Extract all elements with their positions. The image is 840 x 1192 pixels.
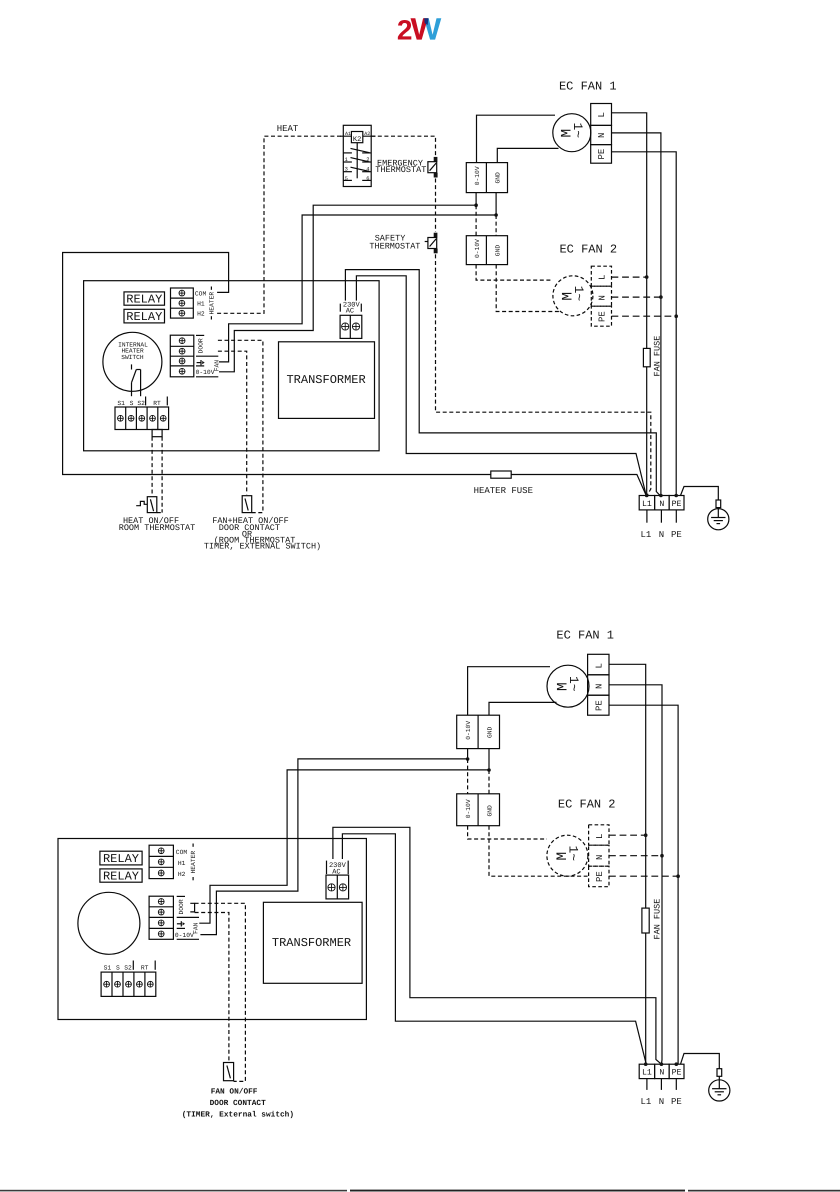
svg-text:AC: AC (346, 308, 354, 316)
svg-text:H1: H1 (197, 300, 205, 307)
logo V blue (424, 18, 441, 39)
svg-text:1~: 1~ (566, 846, 581, 862)
wire PE supply (612, 152, 677, 496)
terminal block L1 N PE mains (639, 496, 684, 540)
svg-text:HEATER FUSE: HEATER FUSE (474, 486, 533, 496)
svg-text:FAN FUSE: FAN FUSE (653, 336, 663, 377)
terminal block fan1 PE (591, 145, 612, 164)
svg-text:L1: L1 (640, 530, 651, 540)
svg-text:RT: RT (153, 400, 161, 407)
svg-text:S1: S1 (104, 964, 112, 971)
enclosure box (bottom) (58, 839, 366, 1020)
motor M1 (EC FAN 1) (553, 114, 591, 152)
svg-text:GND: GND (494, 245, 501, 257)
connector X2 fan2 0-10V/GND (bottom) (457, 794, 500, 826)
terminal block fan1 L (bottom) (588, 654, 609, 675)
connector X2 fan2 0-10V/GND (466, 236, 507, 265)
svg-text:THERMOSTAT: THERMOSTAT (375, 165, 426, 175)
svg-text:S: S (116, 964, 120, 971)
node junction fan2 PE (bottom) (676, 874, 680, 878)
node junction PE (674, 494, 678, 498)
svg-text:H2: H2 (197, 311, 205, 318)
svg-text:EC FAN 2: EC FAN 2 (558, 798, 616, 812)
ground earth symbol (bottom) (709, 1080, 730, 1101)
svg-text:N: N (659, 530, 664, 540)
svg-text:0-10V: 0-10V (474, 166, 481, 185)
svg-text:PE: PE (595, 871, 605, 882)
svg-text:FAN: FAN (213, 360, 220, 372)
wire dashed fan2 GND to motor2 (bottom) (489, 826, 588, 877)
wire fan1 GND to motor (497, 148, 558, 162)
switch circle (bottom, empty) (78, 892, 140, 954)
svg-text:SWITCH: SWITCH (121, 354, 144, 361)
svg-text:TRANSFORMER: TRANSFORMER (286, 373, 365, 387)
wire 230V L to N terminal (bottom) (333, 827, 662, 1064)
relay K relay1 (bottom) (100, 851, 142, 866)
relay K relay1 (124, 292, 165, 307)
switch room thermostat symbol (136, 497, 162, 513)
svg-text:L1: L1 (642, 500, 652, 509)
svg-text:RT: RT (141, 964, 149, 971)
ground earth symbol (708, 509, 729, 530)
motor M2 (EC FAN 2) dashed (bottom) (547, 835, 588, 876)
svg-text:FAN: FAN (193, 922, 200, 934)
svg-text:DOOR: DOOR (178, 899, 185, 914)
relay K relay2 (124, 309, 165, 324)
wire COM to L1 via heater fuse (63, 253, 491, 475)
svg-text:N: N (595, 684, 605, 689)
svg-text:S1: S1 (117, 400, 125, 407)
node junction fan2 N (bottom) (660, 854, 664, 858)
wire dashed fan2 GND to motor2 (496, 265, 561, 312)
node junction L1 (bottom) (644, 1062, 648, 1066)
svg-text:EC FAN 2: EC FAN 2 (559, 242, 617, 256)
svg-text:RELAY: RELAY (103, 852, 139, 866)
node junction 0-10V (bottom) (466, 757, 470, 761)
enclosure inner box (component plate) (84, 281, 380, 451)
wire dashed DOOR row1 (218, 340, 263, 513)
wire dashed 0-10V to fan2 (475, 205, 477, 236)
terminal block fan2 PE dashed (bottom) (589, 866, 609, 887)
wire dashed GND to fan2 (bottom) (488, 770, 490, 794)
terminal block FAN (bottom) (149, 896, 200, 939)
svg-text:H2: H2 (178, 871, 186, 878)
terminal block 230V AC (340, 301, 362, 338)
svg-text:PE: PE (595, 700, 605, 711)
svg-text:PE: PE (598, 311, 608, 322)
wire PE to earth (681, 487, 719, 501)
wire 0-10V control (bottom) (200, 759, 467, 935)
node junction fan2 L (bottom) (644, 833, 648, 837)
wire GND control (bottom) (199, 770, 489, 923)
svg-text:0-10V: 0-10V (196, 369, 215, 376)
transformer T1 (bottom) (263, 902, 362, 983)
svg-text:HEATER: HEATER (190, 851, 197, 874)
fuse F1 HEATER FUSE (474, 471, 533, 496)
svg-text:RELAY: RELAY (103, 870, 139, 884)
terminal block HEATER (COM H1 H2) (171, 287, 216, 320)
svg-text:N: N (659, 1097, 664, 1107)
logo overlap navy (424, 18, 428, 25)
wire PE supply (bottom) (609, 705, 678, 1064)
svg-text:TRANSFORMER: TRANSFORMER (272, 936, 351, 950)
svg-text:S: S (130, 400, 134, 407)
node junction 0-10V (474, 203, 478, 207)
terminal block fan1 N (591, 125, 612, 144)
emergency thermostat B1 (375, 157, 437, 178)
svg-text:0-10V: 0-10V (465, 799, 472, 818)
svg-text:N: N (597, 133, 607, 138)
svg-text:1: 1 (345, 157, 348, 163)
svg-text:6: 6 (366, 176, 369, 182)
wire K2 A2 to emergency thermostat (dashed) (371, 136, 435, 156)
wire safety thermostat to L1 (dashed) (436, 254, 651, 495)
svg-text:L: L (598, 275, 608, 280)
footer bar (0, 1190, 840, 1192)
terminal block fan2 PE dashed (591, 306, 611, 326)
svg-text:TIMER, EXTERNAL SWITCH): TIMER, EXTERNAL SWITCH) (204, 542, 321, 552)
node junction GND (bottom) (487, 768, 491, 772)
wire 0-10V control (fan speed) (219, 205, 476, 372)
svg-text:THERMOSTAT: THERMOSTAT (369, 242, 420, 252)
fuse F2 FAN FUSE (643, 336, 662, 377)
svg-text:GND: GND (487, 726, 494, 738)
wire dashed DOOR upper (bottom) (195, 903, 246, 1081)
wire L supply (bottom) (609, 664, 646, 1064)
svg-text:(TIMER, External switch): (TIMER, External switch) (182, 1111, 294, 1120)
wire dashed 0-10V to fan2 (bottom) (467, 759, 469, 794)
wire dashed RT left (151, 437, 153, 495)
svg-text:1~: 1~ (566, 676, 581, 692)
svg-text:RELAY: RELAY (126, 293, 162, 307)
wire PE to earth (bottom) (681, 1054, 720, 1069)
node junction N (bottom) (660, 1062, 664, 1066)
svg-text:H1: H1 (178, 860, 186, 867)
svg-text:S2: S2 (124, 964, 132, 971)
svg-text:GND: GND (494, 172, 501, 184)
wire emergency to safety thermostat (dashed) (435, 179, 437, 232)
svg-text:EC FAN 1: EC FAN 1 (556, 629, 614, 643)
wire GND control (219, 215, 496, 362)
contactor K2 (340, 125, 376, 186)
wire dashed fan2 0-10V to motor2 (476, 265, 552, 281)
node junction L1 (645, 494, 649, 498)
svg-text:HEAT: HEAT (277, 124, 299, 134)
svg-text:2: 2 (397, 15, 413, 46)
transformer T1 (279, 342, 375, 419)
svg-text:RELAY: RELAY (126, 310, 162, 324)
svg-text:EC FAN 1: EC FAN 1 (559, 80, 617, 94)
svg-text:1~: 1~ (571, 286, 586, 302)
svg-text:4: 4 (366, 167, 369, 173)
svg-text:PE: PE (671, 1097, 682, 1107)
motor M1 bottom (547, 665, 589, 707)
terminal strip S1 S S2 RT (115, 397, 169, 437)
switch door contact symbol (242, 496, 263, 513)
fuse F2 FAN FUSE (bottom) (642, 899, 663, 940)
wire N supply (bottom) (609, 685, 662, 1064)
terminal block fan1 L (591, 104, 612, 126)
svg-text:PE: PE (597, 149, 607, 160)
svg-text:DOOR CONTACT: DOOR CONTACT (210, 1099, 266, 1108)
terminal block fan2 L dashed (591, 266, 611, 286)
svg-text:HEATER: HEATER (208, 292, 215, 315)
wire dashed fan2 N (bottom) (609, 855, 662, 857)
2VV logo (397, 15, 441, 46)
motor M2 (EC FAN 2) dashed (553, 276, 593, 316)
svg-text:L: L (595, 834, 605, 839)
relay K relay2 (bottom) (100, 869, 142, 884)
svg-text:0-10V: 0-10V (175, 932, 194, 939)
terminal strip S1 S S2 RT (bottom) (101, 961, 156, 997)
svg-text:PE: PE (672, 500, 682, 509)
node junction GND (494, 213, 498, 217)
wire dashed fan2 L (bottom) (609, 834, 646, 836)
node junction fan2 L (645, 275, 649, 279)
terminal block fan2 N dashed (591, 286, 611, 306)
svg-text:L1: L1 (640, 1097, 651, 1107)
terminal block fan2 N dashed (bottom) (589, 845, 609, 866)
svg-text:0-10V: 0-10V (465, 721, 472, 740)
svg-text:L: L (595, 663, 605, 668)
svg-text:2: 2 (366, 157, 369, 163)
wire L supply (612, 113, 647, 496)
node junction PE (bottom) (675, 1062, 679, 1066)
wire dashed fan2 N (612, 296, 661, 298)
fuse earth link (716, 500, 721, 508)
wire fan1 0-10V to motor (bottom) (468, 667, 550, 716)
svg-text:L1: L1 (642, 1068, 652, 1077)
svg-text:COM: COM (176, 849, 188, 856)
svg-text:DOOR: DOOR (197, 338, 204, 353)
wire dashed DOOR lower (bottom) (195, 913, 229, 1063)
svg-text:PE: PE (671, 530, 682, 540)
wire fan1 GND to motor (bottom) (489, 702, 557, 715)
wire dashed RT right (161, 437, 163, 513)
wire dashed fan2 0-10V to motor2 (bottom) (468, 826, 547, 839)
bracket DOOR rows (bottom) (190, 903, 194, 912)
terminal block HEATER (bottom) (149, 844, 197, 881)
wire 230V N to L1 terminal (356, 276, 645, 494)
svg-text:N: N (598, 295, 608, 300)
terminal block L1 N PE mains (bottom) (639, 1064, 684, 1107)
wire dashed GND to fan2 (495, 215, 497, 236)
node junction fan2 N (659, 295, 663, 299)
svg-text:FAN ON/OFF: FAN ON/OFF (211, 1087, 258, 1096)
wire 230V N to L1 terminal (bottom) (342, 834, 645, 1063)
svg-text:L: L (597, 112, 607, 117)
svg-text:N: N (595, 855, 605, 860)
svg-text:PE: PE (672, 1068, 682, 1077)
fuse earth link (bottom) (717, 1069, 722, 1077)
node junction fan2 PE (674, 314, 678, 318)
wire dashed DOOR row2 (218, 351, 247, 494)
svg-text:FAN FUSE: FAN FUSE (653, 899, 663, 940)
wire 230V L to N terminal (345, 270, 661, 497)
terminal block 230V AC (bottom) (326, 861, 349, 899)
svg-text:ROOM THERMOSTAT: ROOM THERMOSTAT (119, 523, 196, 533)
svg-text:3: 3 (345, 167, 348, 173)
svg-text:1~: 1~ (570, 123, 585, 139)
terminal block fan1 PE (bottom) (588, 695, 609, 715)
svg-text:A1: A1 (345, 131, 351, 137)
wire dashed fan2 PE (612, 315, 677, 317)
node junction N (659, 494, 663, 498)
connector X1 fan1 0-10V/GND (bottom) (457, 715, 500, 770)
connector X1 fan1 0-10V/GND (466, 163, 507, 215)
svg-text:K2: K2 (353, 136, 361, 144)
svg-text:0-10V: 0-10V (474, 239, 481, 258)
wire H2 to K2 A1 (dashed) (217, 136, 343, 313)
terminal block FAN (DOOR DOOR GND 0-10V) (170, 335, 220, 377)
svg-text:COM: COM (195, 290, 207, 297)
svg-text:N: N (659, 500, 664, 509)
switch S1 internal heater switch (103, 332, 162, 396)
safety thermostat B2 (369, 233, 437, 254)
svg-text:N: N (659, 1068, 664, 1077)
svg-text:GND: GND (487, 805, 494, 817)
terminal block fan1 N (bottom) (588, 675, 609, 695)
wire N supply (612, 133, 661, 496)
wire dashed fan2 L (612, 276, 647, 278)
terminal block fan2 L dashed (bottom) (589, 825, 609, 845)
svg-text:A2: A2 (364, 131, 370, 137)
wire fan1 0-10V to motor (477, 115, 556, 162)
wire dashed fan2 PE (bottom) (609, 875, 678, 877)
logo V red (411, 18, 428, 39)
switch door contact symbol (bottom) (224, 1063, 234, 1081)
svg-text:S2: S2 (137, 400, 145, 407)
svg-text:5: 5 (345, 176, 348, 182)
